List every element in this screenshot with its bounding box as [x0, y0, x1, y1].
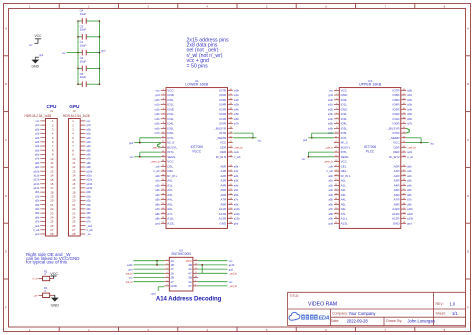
- svg-text:IO5L: IO5L: [341, 126, 348, 130]
- svg-text:A6L: A6L: [341, 207, 347, 211]
- svg-text:io2b: io2b: [155, 107, 161, 111]
- svg-text:E: E: [5, 250, 7, 254]
- svg-text:vcc: vcc: [329, 89, 334, 92]
- svg-text:_oel_hi: _oel_hi: [406, 145, 416, 149]
- svg-text:F: F: [467, 305, 469, 309]
- svg-text:IO4L: IO4L: [167, 122, 174, 126]
- svg-text:B: B: [467, 82, 469, 86]
- svg-text:GND: GND: [32, 65, 40, 69]
- svg-text:a13b: a13b: [407, 217, 413, 221]
- svg-text:a6b: a6b: [155, 202, 160, 206]
- svg-text:A5L: A5L: [341, 202, 347, 206]
- svg-text:_oel_lo: _oel_lo: [228, 285, 238, 288]
- svg-text:a1b: a1b: [234, 169, 239, 173]
- svg-text:A7L: A7L: [341, 212, 347, 216]
- svg-text:a7b: a7b: [155, 207, 160, 211]
- svg-text:_oel_hi: _oel_hi: [228, 273, 238, 276]
- svg-text:A14 Address Decoding: A14 Address Decoding: [156, 296, 222, 302]
- svg-text:IO0L: IO0L: [167, 98, 174, 102]
- svg-text:J2: J2: [73, 109, 76, 113]
- svg-text:a5b: a5b: [86, 148, 91, 152]
- svg-text:A6R: A6R: [220, 193, 227, 197]
- svg-text:INTL: INTL: [167, 150, 174, 154]
- svg-text:UPPER 16KB: UPPER 16KB: [359, 83, 382, 87]
- svg-text:_SEMR: _SEMR: [215, 136, 227, 140]
- svg-text:REV:: REV:: [436, 302, 444, 306]
- svg-text:a14b: a14b: [34, 186, 40, 190]
- svg-text:a12b: a12b: [34, 178, 40, 182]
- svg-text:A: A: [467, 26, 469, 30]
- svg-text:a0b: a0b: [155, 174, 160, 178]
- svg-text:a9b: a9b: [35, 165, 40, 169]
- svg-text:a13b: a13b: [234, 217, 240, 221]
- svg-text:10uF: 10uF: [80, 44, 87, 48]
- svg-text:IO6L: IO6L: [341, 131, 348, 135]
- svg-text:CEL: CEL: [167, 164, 173, 168]
- svg-text:a12b: a12b: [86, 178, 92, 182]
- svg-text:a3b: a3b: [407, 179, 412, 183]
- svg-text:A3L: A3L: [341, 193, 347, 197]
- svg-text:a3b: a3b: [234, 179, 239, 183]
- svg-text:VIDEO RAM: VIDEO RAM: [308, 301, 337, 307]
- svg-text:io7b: io7b: [155, 131, 161, 135]
- svg-text:io7b: io7b: [234, 122, 240, 126]
- svg-text:_oel_b: _oel_b: [151, 145, 161, 149]
- svg-text:gnd: gnd: [303, 139, 308, 142]
- svg-text:D: D: [467, 194, 469, 198]
- svg-text:A2L: A2L: [341, 188, 347, 192]
- svg-text:IO6L: IO6L: [167, 131, 174, 135]
- svg-text:A5L: A5L: [167, 202, 173, 206]
- svg-text:CPU: CPU: [46, 104, 57, 109]
- svg-text:for typical use of this: for typical use of this: [26, 260, 68, 265]
- svg-text:A4L: A4L: [167, 198, 173, 202]
- svg-text:d6b: d6b: [35, 215, 40, 219]
- svg-text:d4b: d4b: [86, 207, 91, 211]
- svg-text:IO1L: IO1L: [341, 103, 348, 107]
- svg-text:io4b: io4b: [328, 117, 334, 121]
- svg-text:OER: OER: [220, 150, 227, 154]
- svg-text:SN74HC00N: SN74HC00N: [171, 252, 191, 256]
- svg-text:r/_wb: r/_wb: [86, 228, 93, 232]
- svg-text:a11b: a11b: [234, 207, 240, 211]
- svg-text:2022-09-28: 2022-09-28: [347, 318, 369, 323]
- svg-text:A3R: A3R: [394, 179, 401, 183]
- svg-text:a14b: a14b: [127, 264, 133, 267]
- svg-text:a8b: a8b: [86, 161, 91, 165]
- svg-text:IO0R: IO0R: [392, 122, 400, 126]
- svg-text:io1b: io1b: [155, 103, 161, 107]
- svg-text:A1R: A1R: [394, 169, 401, 173]
- svg-text:CER: CER: [220, 145, 227, 149]
- svg-text:io2b: io2b: [234, 98, 240, 102]
- svg-text:PLCC: PLCC: [366, 149, 375, 153]
- svg-text:A6L: A6L: [167, 207, 173, 211]
- svg-text:R/_W L: R/_W L: [341, 174, 351, 178]
- svg-text:A: A: [5, 26, 7, 30]
- svg-text:a12b: a12b: [234, 212, 240, 216]
- svg-text:IO3L: IO3L: [341, 117, 348, 121]
- svg-text:a4b: a4b: [35, 144, 40, 148]
- svg-text:A3L: A3L: [167, 193, 173, 197]
- svg-text:_oeb: _oeb: [33, 224, 40, 228]
- svg-text:d4b: d4b: [35, 207, 40, 211]
- svg-text:VCC: VCC: [167, 88, 174, 92]
- svg-text:io0b: io0b: [407, 88, 413, 92]
- svg-text:a2b: a2b: [407, 174, 412, 178]
- svg-text:gnd: gnd: [407, 221, 412, 225]
- svg-text:IO6R: IO6R: [219, 93, 227, 97]
- svg-text:a11b: a11b: [407, 207, 413, 211]
- svg-text:r/_wb: r/_wb: [234, 155, 241, 159]
- svg-text:INTL: INTL: [341, 150, 348, 154]
- svg-text:io7b: io7b: [407, 122, 413, 126]
- svg-text:GND: GND: [51, 303, 60, 307]
- svg-text:gnd: gnd: [129, 142, 134, 145]
- svg-text:io5b: io5b: [234, 112, 240, 116]
- svg-text:oelo: oelo: [234, 150, 240, 154]
- svg-text:a9b: a9b: [86, 165, 91, 169]
- svg-text:io5b: io5b: [407, 112, 413, 116]
- svg-text:A2L: A2L: [167, 188, 173, 192]
- svg-text:_BUSYR: _BUSYR: [213, 126, 227, 130]
- svg-text:1.0: 1.0: [450, 301, 456, 306]
- svg-text:a7b: a7b: [35, 157, 40, 161]
- svg-text:r/_wb: r/_wb: [326, 169, 333, 173]
- svg-text:io6b: io6b: [407, 117, 413, 121]
- svg-text:R/_W R: R/_W R: [389, 155, 400, 159]
- svg-text:F: F: [5, 305, 7, 309]
- svg-text:GND: GND: [393, 221, 401, 225]
- svg-text:LOWER 16KB: LOWER 16KB: [185, 83, 209, 87]
- svg-text:io1b: io1b: [407, 93, 413, 97]
- svg-text:A9R: A9R: [394, 202, 401, 206]
- svg-text:a14b: a14b: [86, 186, 92, 190]
- svg-text:A1L: A1L: [167, 183, 173, 187]
- svg-text:a6b: a6b: [86, 153, 91, 157]
- svg-text:a2b: a2b: [35, 136, 40, 140]
- svg-text:10uF: 10uF: [80, 75, 87, 79]
- svg-text:a0b: a0b: [86, 127, 91, 131]
- svg-text:SEML: SEML: [341, 155, 350, 159]
- svg-text:IO7R: IO7R: [392, 88, 400, 92]
- svg-text:d5b: d5b: [86, 211, 91, 215]
- svg-text:A5R: A5R: [220, 188, 227, 192]
- svg-text:_oel_b: _oel_b: [324, 145, 334, 149]
- svg-text:gnd: gnd: [128, 268, 133, 271]
- svg-text:not_hi: not_hi: [126, 273, 133, 276]
- svg-text:gnd: gnd: [35, 123, 40, 127]
- svg-text:BUSYL: BUSYL: [167, 145, 177, 149]
- svg-text:r/_wb: r/_wb: [153, 169, 160, 173]
- svg-text:a9b: a9b: [234, 202, 239, 206]
- svg-text:a4b: a4b: [407, 183, 412, 187]
- svg-text:a0b: a0b: [234, 164, 239, 168]
- svg-text:IO5L: IO5L: [167, 126, 174, 130]
- svg-text:HDR-M-2.54_1x28: HDR-M-2.54_1x28: [63, 114, 90, 118]
- svg-text:a4b: a4b: [155, 193, 160, 197]
- svg-text:Company:: Company:: [332, 312, 348, 316]
- svg-text:a5b: a5b: [234, 188, 239, 192]
- svg-text:d6b: d6b: [86, 215, 91, 219]
- svg-text:OER: OER: [393, 150, 400, 154]
- svg-text:10uF: 10uF: [80, 59, 87, 63]
- svg-text:a1b: a1b: [35, 132, 40, 136]
- svg-text:= 50 pins: = 50 pins: [187, 63, 209, 69]
- svg-text:io1b: io1b: [234, 93, 240, 97]
- svg-text:IO5R: IO5R: [219, 98, 227, 102]
- svg-text:a4b: a4b: [234, 183, 239, 187]
- svg-text:IO1R: IO1R: [392, 117, 400, 121]
- svg-text:A4R: A4R: [220, 183, 227, 187]
- svg-text:A7R: A7R: [394, 198, 401, 202]
- svg-text:A7L: A7L: [167, 212, 173, 216]
- svg-text:A12R: A12R: [219, 212, 227, 216]
- svg-text:a13b: a13b: [34, 182, 40, 186]
- svg-text:GND: GND: [171, 284, 177, 288]
- svg-text:A0L: A0L: [341, 179, 347, 183]
- svg-text:a3b: a3b: [35, 140, 40, 144]
- svg-text:io4b: io4b: [155, 117, 161, 121]
- svg-text:a10b: a10b: [34, 169, 40, 173]
- svg-text:A11L: A11L: [167, 217, 174, 221]
- svg-text:a0b: a0b: [35, 127, 40, 131]
- svg-text:a8b: a8b: [35, 161, 40, 165]
- svg-text:IO3R: IO3R: [392, 107, 400, 111]
- svg-text:HDR-M-2.54_1x28: HDR-M-2.54_1x28: [25, 114, 52, 118]
- svg-text:a10b: a10b: [86, 169, 92, 173]
- svg-text:IO5R: IO5R: [392, 98, 400, 102]
- svg-text:A1L: A1L: [341, 183, 347, 187]
- svg-text:GPU: GPU: [69, 104, 80, 109]
- svg-text:a9b: a9b: [407, 202, 412, 206]
- svg-text:io4b: io4b: [234, 107, 240, 111]
- svg-text:gnd: gnd: [101, 50, 106, 53]
- svg-text:gnd: gnd: [151, 293, 156, 296]
- svg-text:1/1: 1/1: [452, 311, 458, 316]
- svg-text:gnd: gnd: [35, 232, 40, 236]
- svg-text:IDT7006: IDT7006: [191, 145, 203, 149]
- svg-text:IO4L: IO4L: [341, 122, 348, 126]
- svg-text:SEML: SEML: [167, 155, 176, 159]
- svg-text:a9b: a9b: [155, 217, 160, 221]
- svg-text:io6b: io6b: [234, 117, 240, 121]
- svg-text:IO4R: IO4R: [219, 103, 227, 107]
- svg-text:io5b: io5b: [155, 122, 161, 126]
- svg-text:IO1L: IO1L: [167, 103, 174, 107]
- svg-text:gnd: gnd: [155, 221, 160, 225]
- svg-text:IDT7006: IDT7006: [364, 145, 376, 149]
- svg-text:EDA: EDA: [319, 316, 330, 322]
- svg-text:A12R: A12R: [392, 212, 400, 216]
- svg-text:A13R: A13R: [219, 217, 227, 221]
- svg-text:A13L: A13L: [341, 221, 348, 225]
- svg-text:d2b: d2b: [35, 199, 40, 203]
- svg-text:a13b: a13b: [86, 182, 92, 186]
- svg-text:A0L: A0L: [167, 179, 173, 183]
- svg-text:a2b: a2b: [329, 183, 334, 187]
- svg-text:a7b: a7b: [407, 198, 412, 202]
- svg-text:IO3L: IO3L: [167, 117, 174, 121]
- svg-text:IO2R: IO2R: [219, 112, 227, 116]
- svg-text:r/_wb: r/_wb: [33, 228, 40, 232]
- svg-text:a6b: a6b: [407, 193, 412, 197]
- svg-text:_sem_b: _sem_b: [149, 160, 160, 164]
- svg-text:io4b: io4b: [407, 107, 413, 111]
- svg-text:_wb: _wb: [327, 164, 333, 168]
- svg-text:a1b: a1b: [155, 179, 160, 183]
- svg-text:gnd: gnd: [329, 93, 334, 97]
- svg-text:GND: GND: [167, 107, 175, 111]
- svg-text:IO2L: IO2L: [167, 112, 174, 116]
- svg-text:BUSYL: BUSYL: [341, 145, 351, 149]
- svg-text:a9b: a9b: [329, 217, 334, 221]
- svg-text:A0R: A0R: [394, 164, 401, 168]
- svg-text:a4b: a4b: [86, 144, 91, 148]
- svg-text:10uF: 10uF: [80, 12, 87, 16]
- svg-text:A3R: A3R: [220, 179, 227, 183]
- svg-text:a12b: a12b: [407, 212, 413, 216]
- svg-text:C: C: [467, 138, 469, 142]
- svg-text:gnd: gnd: [329, 221, 334, 225]
- svg-text:A7R: A7R: [220, 198, 227, 202]
- svg-text:_ce: _ce: [85, 233, 91, 236]
- svg-text:io0b: io0b: [328, 98, 334, 102]
- svg-text:a5b: a5b: [155, 198, 160, 202]
- svg-text:A4L: A4L: [341, 198, 347, 202]
- svg-text:io2b: io2b: [407, 98, 413, 102]
- svg-text:R/_W L: R/_W L: [167, 174, 177, 178]
- svg-text:A0R: A0R: [220, 164, 227, 168]
- svg-text:a2b: a2b: [155, 183, 160, 187]
- svg-text:a6b: a6b: [234, 193, 239, 197]
- svg-text:IO2R: IO2R: [392, 112, 400, 116]
- svg-text:PLCC: PLCC: [193, 149, 202, 153]
- svg-text:IO0L: IO0L: [341, 98, 348, 102]
- svg-text:io3b: io3b: [234, 103, 240, 107]
- svg-text:INTR: INTR: [393, 131, 401, 135]
- svg-text:R/_W R: R/_W R: [216, 155, 227, 159]
- svg-text:_sem_b: _sem_b: [322, 160, 333, 164]
- svg-text:a5b: a5b: [407, 188, 412, 192]
- svg-text:A9R: A9R: [220, 202, 227, 206]
- svg-text:r/_w: r/_w: [33, 278, 38, 281]
- svg-text:A11R: A11R: [219, 207, 227, 211]
- svg-text:a5b: a5b: [329, 198, 334, 202]
- svg-text:OEL: OEL: [341, 169, 347, 173]
- svg-text:a7b: a7b: [86, 157, 91, 161]
- svg-text:VCC: VCC: [34, 34, 42, 38]
- svg-text:IO7L: IO7L: [167, 136, 174, 140]
- svg-text:a6b: a6b: [329, 202, 334, 206]
- svg-text:IO4R: IO4R: [392, 103, 400, 107]
- svg-text:io6b: io6b: [155, 126, 161, 130]
- svg-text:GND: GND: [167, 93, 175, 97]
- svg-text:M/_S: M/_S: [341, 141, 348, 145]
- svg-text:a11b: a11b: [34, 174, 40, 178]
- svg-text:a1b: a1b: [86, 132, 91, 136]
- svg-text:3Y: 3Y: [188, 284, 192, 288]
- svg-text:a2b: a2b: [86, 136, 91, 140]
- svg-text:vcc: vcc: [156, 89, 161, 92]
- svg-text:Drawn By:: Drawn By:: [386, 319, 402, 323]
- svg-text:IO0R: IO0R: [219, 122, 227, 126]
- svg-text:a1b: a1b: [407, 169, 412, 173]
- svg-text:VCC: VCC: [341, 88, 348, 92]
- svg-text:C: C: [5, 138, 7, 142]
- svg-text:IO7L: IO7L: [341, 136, 348, 140]
- svg-text:GND: GND: [341, 107, 349, 111]
- svg-text:_oel_lo: _oel_lo: [233, 145, 243, 149]
- svg-text:d1b: d1b: [35, 194, 40, 198]
- svg-text:d7b: d7b: [35, 220, 40, 224]
- svg-text:B: B: [5, 82, 7, 86]
- svg-text:a7b: a7b: [329, 207, 334, 211]
- svg-text:A4R: A4R: [394, 183, 401, 187]
- svg-text:INTR: INTR: [219, 131, 227, 135]
- svg-text:a3b: a3b: [86, 140, 91, 144]
- svg-text:a14b: a14b: [229, 264, 235, 267]
- svg-text:IO3R: IO3R: [219, 107, 227, 111]
- svg-text:TITLE:: TITLE:: [290, 294, 300, 298]
- svg-text:io6b: io6b: [328, 126, 334, 130]
- svg-text:10uF: 10uF: [80, 28, 87, 32]
- svg-text:gnd: gnd: [229, 268, 234, 271]
- svg-text:d0b: d0b: [86, 190, 91, 194]
- svg-text:d3b: d3b: [35, 203, 40, 207]
- svg-text:gnd: gnd: [86, 123, 91, 127]
- svg-text:D: D: [5, 194, 7, 198]
- svg-text:gnd: gnd: [234, 221, 239, 225]
- svg-text:io5b: io5b: [328, 122, 334, 126]
- svg-text:io3b: io3b: [155, 112, 161, 116]
- svg-text:A2R: A2R: [394, 174, 401, 178]
- svg-text:A5R: A5R: [394, 188, 401, 192]
- svg-text:IO2L: IO2L: [341, 112, 348, 116]
- svg-text:VCC: VCC: [393, 141, 400, 145]
- svg-text:M/_S: M/_S: [167, 141, 174, 145]
- svg-text:d3b: d3b: [86, 203, 91, 207]
- svg-text:a1b: a1b: [329, 179, 334, 183]
- svg-text:CER: CER: [393, 145, 400, 149]
- svg-text:_oeb: _oeb: [85, 224, 92, 228]
- svg-text:_BUSYR: _BUSYR: [386, 126, 400, 130]
- svg-text:J1: J1: [50, 109, 53, 113]
- svg-text:io0b: io0b: [234, 88, 240, 92]
- svg-text:a4b: a4b: [329, 193, 334, 197]
- svg-text:A13L: A13L: [167, 221, 174, 225]
- svg-text:VCC: VCC: [50, 272, 58, 276]
- svg-text:d5b: d5b: [35, 211, 40, 215]
- svg-text:io1b: io1b: [328, 103, 334, 107]
- svg-text:E: E: [467, 250, 469, 254]
- svg-text:io3b: io3b: [407, 103, 413, 107]
- svg-text:d2b: d2b: [86, 199, 91, 203]
- svg-text:a2b: a2b: [234, 174, 239, 178]
- svg-text:not_hi: not_hi: [126, 281, 133, 284]
- svg-text:a5b: a5b: [35, 148, 40, 152]
- svg-text:IO7R: IO7R: [219, 88, 227, 92]
- svg-text:r/_wr: r/_wr: [407, 155, 413, 159]
- svg-text:VCC: VCC: [167, 160, 174, 164]
- svg-text:a11b: a11b: [86, 174, 92, 178]
- svg-text:John Lonergan: John Lonergan: [408, 318, 436, 323]
- svg-text:a8b: a8b: [329, 212, 334, 216]
- svg-text:gnd: gnd: [39, 54, 44, 57]
- svg-text:VCC: VCC: [220, 141, 227, 145]
- svg-text:gnd: gnd: [155, 93, 160, 97]
- svg-text:GND: GND: [220, 221, 228, 225]
